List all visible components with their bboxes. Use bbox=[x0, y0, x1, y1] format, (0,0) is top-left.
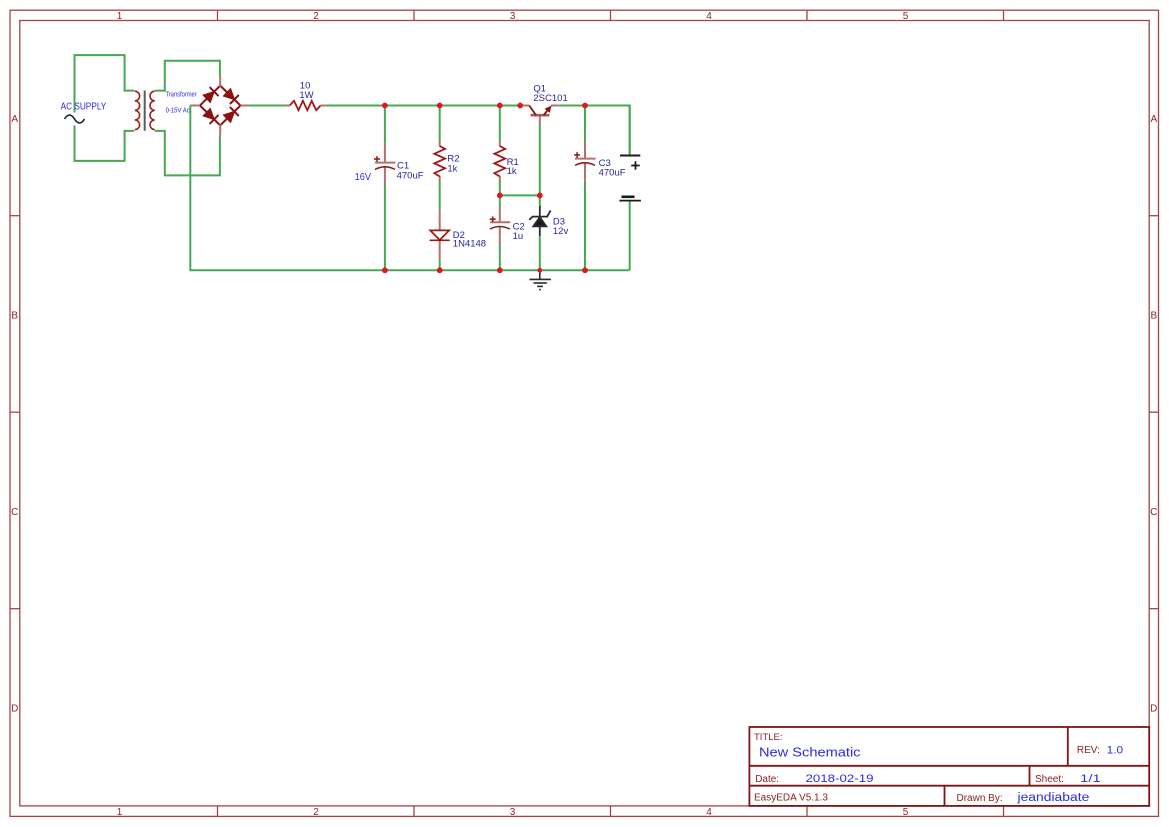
svg-text:REV:: REV: bbox=[1077, 745, 1100, 756]
label D2 1N4148 bbox=[453, 230, 486, 250]
AC source V1 bbox=[65, 115, 85, 123]
wire bridge left to bottom rail bbox=[190, 106, 629, 271]
svg-text:470uF: 470uF bbox=[397, 170, 424, 181]
junction dots bbox=[382, 103, 588, 274]
svg-text:Sheet:: Sheet: bbox=[1035, 774, 1064, 785]
resistor 10 1W bbox=[290, 101, 321, 110]
ground GND bbox=[529, 270, 551, 289]
transformer T1 primary coil bbox=[135, 91, 140, 129]
wire node R1/C2/D3 horizontal bbox=[500, 194, 540, 196]
wire secondary top to bridge bbox=[155, 61, 220, 91]
svg-text:A: A bbox=[11, 114, 18, 125]
svg-text:5: 5 bbox=[903, 807, 909, 818]
wire Q1 base down bbox=[539, 125, 541, 195]
svg-text:1: 1 bbox=[117, 807, 123, 818]
svg-text:C: C bbox=[11, 507, 18, 518]
svg-text:2SC101: 2SC101 bbox=[533, 93, 567, 104]
wire secondary bottom to bridge bbox=[155, 131, 220, 176]
svg-text:4: 4 bbox=[706, 807, 712, 818]
svg-text:1.0: 1.0 bbox=[1107, 744, 1124, 756]
capacitor C2 bbox=[490, 206, 510, 246]
svg-text:12v: 12v bbox=[553, 226, 569, 237]
svg-text:EasyEDA V5.1.3: EasyEDA V5.1.3 bbox=[754, 793, 828, 804]
transformer T1 core bbox=[144, 91, 146, 131]
diode D2 bbox=[439, 210, 441, 260]
svg-text:Transformer: Transformer bbox=[166, 91, 198, 98]
svg-text:1k: 1k bbox=[507, 166, 517, 177]
svg-text:jeandiabate: jeandiabate bbox=[1016, 792, 1089, 804]
value label 10 1W bbox=[299, 81, 313, 101]
svg-text:1N4148: 1N4148 bbox=[453, 239, 486, 250]
label C3 470uF bbox=[599, 158, 626, 179]
svg-text:3: 3 bbox=[510, 807, 516, 818]
svg-text:2018-02-19: 2018-02-19 bbox=[806, 773, 874, 785]
svg-text:Date:: Date: bbox=[755, 774, 779, 785]
label R2 1k bbox=[447, 154, 459, 175]
svg-text:TITLE:: TITLE: bbox=[754, 732, 783, 743]
svg-text:16V: 16V bbox=[355, 172, 372, 183]
svg-text:470uF: 470uF bbox=[599, 168, 626, 179]
transformer T1 secondary coil bbox=[150, 91, 155, 129]
bridge rectifier D1 bbox=[200, 86, 241, 126]
svg-text:B: B bbox=[11, 310, 18, 321]
wire primary loop of AC source bbox=[75, 55, 135, 161]
title block bbox=[749, 727, 1149, 806]
svg-text:2: 2 bbox=[313, 807, 319, 818]
svg-text:0-15V Ac: 0-15V Ac bbox=[166, 107, 191, 114]
svg-text:A: A bbox=[1150, 114, 1157, 125]
wire C2 branch bbox=[499, 195, 501, 206]
svg-text:5: 5 bbox=[903, 11, 909, 22]
svg-text:Drawn By:: Drawn By: bbox=[957, 793, 1003, 804]
wire top rail bbox=[325, 106, 630, 155]
resistor R2 bbox=[439, 106, 441, 143]
svg-text:1: 1 bbox=[117, 11, 123, 22]
svg-text:1u: 1u bbox=[513, 231, 524, 242]
label D3 12v bbox=[553, 217, 569, 238]
svg-text:D: D bbox=[1150, 703, 1157, 714]
label C1 470uF bbox=[397, 161, 424, 182]
label C2 1u bbox=[513, 221, 525, 242]
svg-text:1W: 1W bbox=[299, 90, 313, 101]
svg-text:New Schematic: New Schematic bbox=[759, 745, 861, 759]
label Q1 2SC101 bbox=[533, 83, 567, 104]
svg-text:3: 3 bbox=[510, 11, 516, 22]
svg-text:4: 4 bbox=[706, 11, 712, 22]
capacitor C1 bbox=[384, 106, 386, 144]
svg-text:AC SUPPLY: AC SUPPLY bbox=[61, 102, 107, 113]
bridge rectifier pins bbox=[190, 76, 249, 135]
label R1 1k bbox=[507, 157, 519, 177]
wire D3 top bbox=[539, 195, 541, 206]
svg-text:B: B bbox=[1150, 310, 1157, 321]
resistor R1 bbox=[499, 106, 501, 143]
svg-text:2: 2 bbox=[313, 11, 319, 22]
transistor Q1 bbox=[520, 106, 560, 126]
wire R2 to D2 bbox=[439, 181, 441, 210]
capacitor C3 bbox=[584, 106, 586, 142]
battery BT1 bbox=[629, 106, 631, 155]
wire bridge right to resistor bbox=[249, 105, 285, 107]
zener diode D3 bbox=[529, 206, 550, 236]
wire R1 to node bbox=[499, 181, 501, 196]
svg-text:1/1: 1/1 bbox=[1080, 773, 1101, 785]
svg-text:C: C bbox=[1150, 507, 1157, 518]
svg-text:1k: 1k bbox=[447, 163, 457, 174]
svg-text:D: D bbox=[11, 703, 18, 714]
